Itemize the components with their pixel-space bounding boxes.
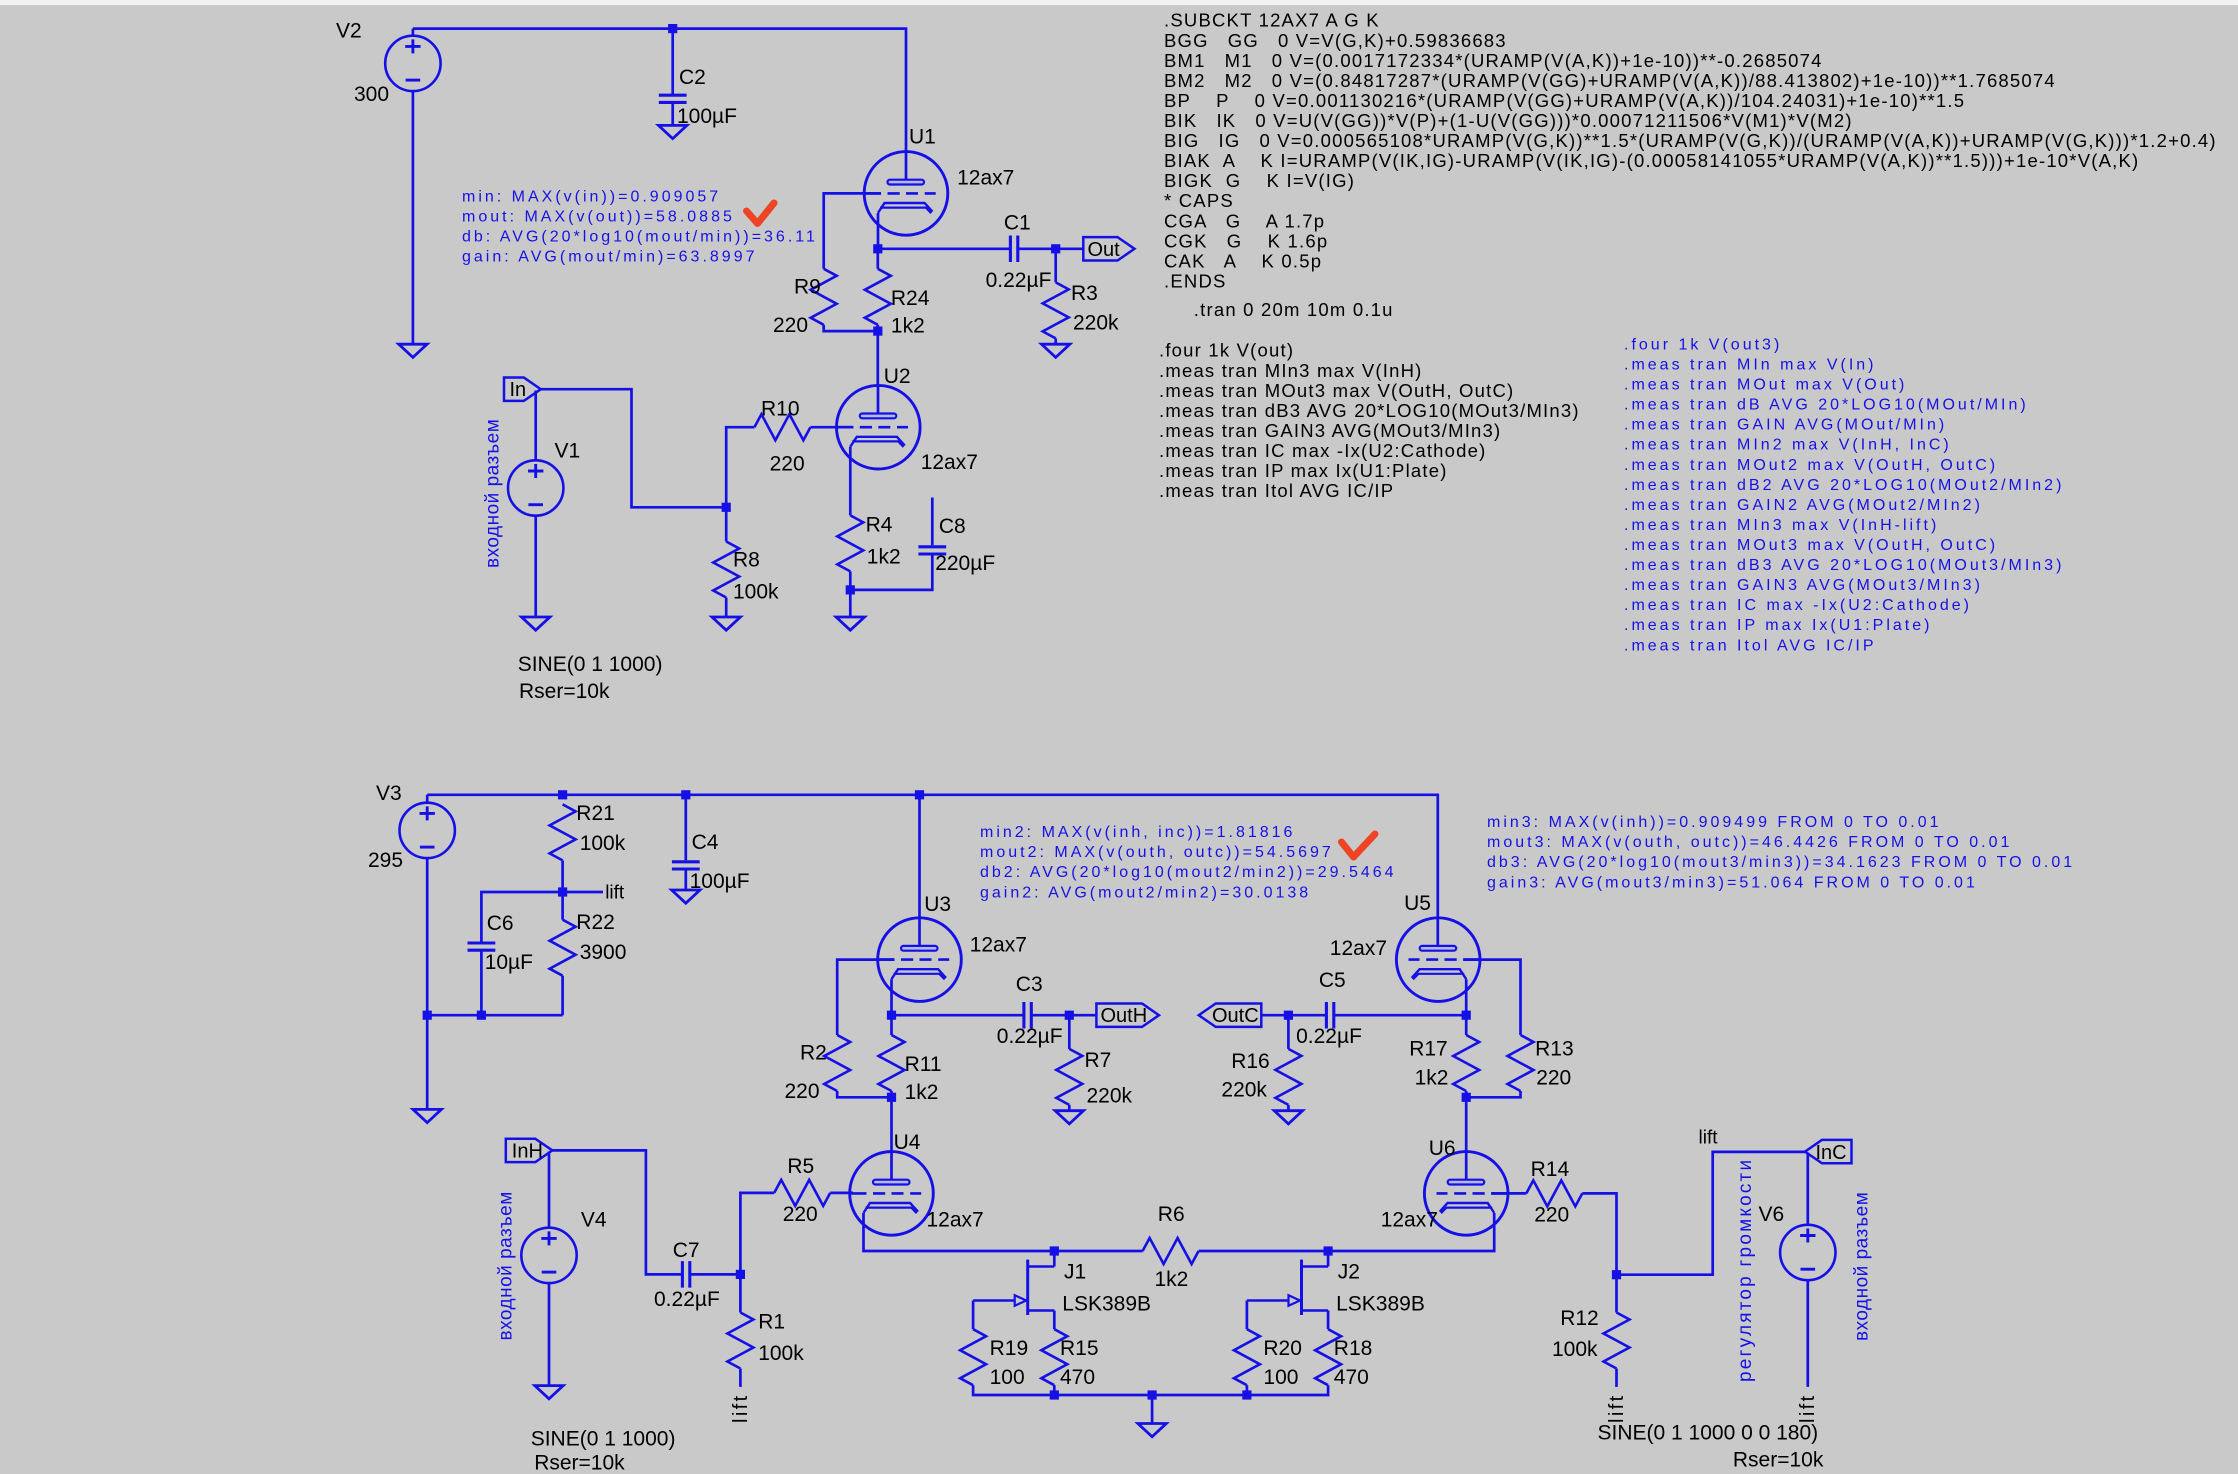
wire V6 minus stub [1806, 1280, 1809, 1387]
resistor R16 [1275, 1049, 1301, 1105]
wire lift stub [563, 891, 603, 894]
resistor R5 [774, 1180, 830, 1206]
wire R5 to U4 grid [830, 1192, 853, 1195]
svg-text:.meas tran MOut3 max V(OutH, O: .meas tran MOut3 max V(OutH, OutC) [1159, 380, 1514, 401]
svg-text:.meas tran IP max Ix(U1:Plate): .meas tran IP max Ix(U1:Plate) [1624, 617, 1932, 634]
wire V3 top lead [426, 795, 429, 803]
wire InH to C7 [552, 1150, 682, 1274]
wire R17 bottom lead [1465, 1091, 1468, 1097]
svg-text:C2: C2 [679, 66, 706, 89]
wire node up to R5 [740, 1193, 774, 1275]
resistor R20 [1234, 1329, 1260, 1385]
wire node to C1 left [878, 247, 1011, 250]
svg-text:470: 470 [1334, 1366, 1369, 1389]
svg-text:220: 220 [785, 1080, 820, 1103]
wire U4 plate lead [890, 1152, 893, 1180]
svg-text:R4: R4 [866, 514, 893, 537]
wire R10 right to U2 grid [810, 426, 853, 429]
wire U5 cathode to node [1465, 979, 1468, 1015]
svg-text:R2: R2 [800, 1042, 827, 1065]
wire U1 cathode to node [877, 213, 880, 249]
svg-text:db3: AVG(20*log10(mout3/min3)): db3: AVG(20*log10(mout3/min3))=34.1623 F… [1487, 854, 2075, 871]
wire InH down to V4 [548, 1152, 551, 1228]
wire R17 top lead [1465, 1015, 1468, 1035]
svg-text:R22: R22 [576, 911, 615, 934]
svg-text:U5: U5 [1404, 892, 1431, 915]
wire node down to U2 plate [876, 331, 879, 385]
svg-text:C5: C5 [1319, 969, 1346, 992]
wire R15 bottom lead [1053, 1385, 1056, 1395]
svg-text:CGK G K 1.6p: CGK G K 1.6p [1164, 230, 1328, 251]
resistor R24 [865, 269, 891, 325]
wire R3 to ground [1054, 338, 1057, 344]
wire R19 bottom to bus [973, 1385, 1054, 1395]
ground under C2 [659, 125, 687, 138]
wire R8 to ground [725, 598, 728, 618]
wire R2 bottom to node [837, 1091, 891, 1097]
resistor R6 [1143, 1238, 1199, 1264]
svg-text:220: 220 [783, 1203, 818, 1226]
wire C6 bottom lead [480, 950, 483, 1015]
svg-text:.meas tran MIn max V(In): .meas tran MIn max V(In) [1624, 356, 1877, 373]
svg-text:R18: R18 [1334, 1337, 1373, 1360]
svg-text:.SUBCKT 12AX7 A G K: .SUBCKT 12AX7 A G K [1164, 10, 1380, 31]
wire V2 plus lead [412, 29, 415, 36]
svg-text:220: 220 [773, 314, 808, 337]
svg-text:.meas tran MIn3 max V(InH-lift: .meas tran MIn3 max V(InH-lift) [1624, 517, 1939, 534]
svg-text:J1: J1 [1064, 1260, 1086, 1283]
svg-text:входной разъем: входной разъем [496, 1191, 517, 1340]
svg-text:регулятор громкости: регулятор громкости [1735, 1158, 1756, 1382]
svg-text:R14: R14 [1531, 1158, 1570, 1181]
svg-text:V3: V3 [376, 782, 402, 805]
wire node to R12 [1615, 1275, 1618, 1313]
wire J2 source to R18 [1327, 1311, 1330, 1330]
svg-text:100k: 100k [758, 1342, 804, 1365]
svg-text:.meas tran dB3 AVG 20*LOG10(MO: .meas tran dB3 AVG 20*LOG10(MOut3/MIn3) [1624, 557, 2064, 574]
svg-text:U4: U4 [894, 1131, 921, 1154]
net flag InH [506, 1139, 553, 1162]
wire node to ground [849, 590, 852, 617]
svg-text:.meas tran Itol AVG IC/IP: .meas tran Itol AVG IC/IP [1624, 637, 1877, 654]
wire J1 source to R15 [1053, 1311, 1056, 1330]
svg-text:1k2: 1k2 [1155, 1268, 1189, 1291]
svg-text:.meas tran dB3 AVG 20*LOG10(MO: .meas tran dB3 AVG 20*LOG10(MOut3/MIn3) [1159, 400, 1580, 421]
wire J1 gate to R19 [972, 1301, 975, 1330]
svg-text:.meas tran GAIN3 AVG(MOut3/MIn: .meas tran GAIN3 AVG(MOut3/MIn3) [1624, 577, 1983, 594]
svg-text:Rser=10k: Rser=10k [519, 680, 610, 703]
wire R18 bottom to bus [1247, 1385, 1328, 1395]
svg-text:10µF: 10µF [485, 951, 533, 974]
wire J2 drain lead [1327, 1251, 1330, 1267]
svg-text:.meas tran IC max -Ix(U2:Catho: .meas tran IC max -Ix(U2:Cathode) [1159, 440, 1486, 461]
svg-text:db2: AVG(20*log10(mout2/min2)): db2: AVG(20*log10(mout2/min2))=29.5464 [980, 864, 1397, 881]
wire C4 bottom lead [684, 869, 687, 890]
junction R15 at lower bus [1050, 1390, 1059, 1399]
svg-text:R20: R20 [1263, 1337, 1302, 1360]
junction node B+ at C2 [668, 24, 677, 33]
wire C2 bottom lead [671, 102, 674, 125]
svg-text:1k2: 1k2 [891, 315, 925, 338]
svg-text:* CAPS: * CAPS [1164, 190, 1234, 211]
ground under R4 [836, 617, 864, 630]
wire C4 top lead [684, 795, 687, 861]
triode U4 12ax7 [850, 1152, 934, 1236]
svg-text:12ax7: 12ax7 [957, 167, 1014, 190]
svg-text:BIGK G K I=V(IG): BIGK G K I=V(IG) [1164, 170, 1355, 191]
junction Out node [1051, 244, 1060, 253]
wire U6 grid to R14 [1491, 1192, 1526, 1195]
svg-text:.meas tran MIn2 max V(InH, InC: .meas tran MIn2 max V(InH, InC) [1624, 437, 1952, 454]
junction C7/R1/R5 node [736, 1270, 745, 1279]
triode U2 12ax7 [837, 385, 921, 469]
svg-text:R13: R13 [1535, 1037, 1574, 1060]
svg-text:gain: AVG(mout/min)=63.8997: gain: AVG(mout/min)=63.8997 [462, 249, 758, 266]
wire R22 bottom lead [561, 976, 564, 1016]
wire C8 top stub [931, 498, 934, 546]
svg-text:R19: R19 [990, 1337, 1029, 1360]
svg-text:InC: InC [1816, 1142, 1847, 1164]
wire J2 gate to R20 [1246, 1301, 1249, 1330]
svg-text:0.22µF: 0.22µF [1296, 1025, 1362, 1048]
svg-text:lift: lift [1606, 1393, 1628, 1423]
svg-text:V4: V4 [581, 1209, 607, 1232]
svg-text:J2: J2 [1338, 1260, 1360, 1283]
wire R11 top lead [890, 1015, 893, 1035]
svg-text:R12: R12 [1560, 1307, 1599, 1330]
svg-text:In: In [510, 379, 527, 401]
wire U5 grid to R13 [1463, 960, 1520, 1035]
wire U2 plate lead inside [877, 386, 880, 414]
svg-text:.meas tran dB2 AVG 20*LOG10(MO: .meas tran dB2 AVG 20*LOG10(MOut2/MIn2) [1624, 477, 2064, 494]
svg-text:mout: MAX(v(out))=58.0885: mout: MAX(v(out))=58.0885 [462, 208, 735, 225]
ground under R7 [1055, 1111, 1083, 1124]
wire R16 to ground [1287, 1105, 1290, 1111]
wire V2 minus to ground [412, 91, 415, 344]
svg-text:R1: R1 [758, 1311, 785, 1334]
resistor R19 [960, 1329, 986, 1385]
wire R11 bottom lead [890, 1091, 893, 1097]
wire lower bus [1054, 1394, 1247, 1397]
resistor R17 [1453, 1035, 1479, 1091]
junction OutH node [1065, 1011, 1074, 1020]
ground under R3 [1042, 344, 1070, 357]
svg-text:mout2: MAX(v(outh, outc))=54.5: mout2: MAX(v(outh, outc))=54.5697 [980, 844, 1334, 861]
wire C7 to node [690, 1273, 740, 1276]
junction R4/C8 node [846, 585, 855, 594]
ground under R8 [712, 617, 740, 630]
svg-text:OutC: OutC [1212, 1005, 1259, 1027]
svg-text:InH: InH [512, 1141, 543, 1163]
wire R6 to J2 node [1199, 1250, 1329, 1253]
svg-text:U1: U1 [909, 125, 936, 148]
wire InC down to V6 [1806, 1153, 1809, 1225]
svg-text:входной разъем: входной разъем [483, 419, 504, 568]
wire node to R10 left [726, 427, 754, 507]
svg-text:.meas tran GAIN2 AVG(MOut2/MIn: .meas tran GAIN2 AVG(MOut2/MIn2) [1624, 497, 1983, 514]
wire C3 to OutH [1032, 1014, 1097, 1017]
wire R21 bottom to lift node [561, 860, 564, 892]
svg-text:SINE(0 1 1000 0 0 180): SINE(0 1 1000 0 0 180) [1598, 1422, 1819, 1445]
wire node to InC flag [1617, 1152, 1806, 1275]
svg-text:300: 300 [354, 83, 389, 106]
junction R14/R12 node [1612, 1270, 1621, 1279]
svg-text:V2: V2 [336, 20, 362, 43]
svg-text:U3: U3 [924, 893, 951, 916]
wire R14 to node [1582, 1193, 1616, 1274]
svg-text:R24: R24 [891, 287, 930, 310]
capacitor C3 [1024, 1002, 1031, 1028]
wire R9 bottom to node [824, 325, 878, 331]
svg-text:db: AVG(20*log10(mout/min))=36: db: AVG(20*log10(mout/min))=36.11 [462, 229, 818, 246]
svg-text:.meas tran dB AVG 20*LOG10(MOu: .meas tran dB AVG 20*LOG10(MOut/MIn) [1624, 397, 2029, 414]
svg-text:0.22µF: 0.22µF [986, 269, 1052, 292]
junction R9/R24 bottom node [873, 327, 882, 336]
wire U6 plate lead [1465, 1152, 1468, 1180]
wire R13 bottom to node [1466, 1091, 1520, 1097]
resistor R15 [1041, 1329, 1067, 1385]
junction lift node [558, 887, 567, 896]
ground under R16 [1274, 1111, 1302, 1124]
svg-text:100: 100 [1263, 1366, 1298, 1389]
svg-text:gain2: AVG(mout2/min2)=30.0138: gain2: AVG(mout2/min2)=30.0138 [980, 884, 1311, 901]
wire R4 bottom lead [849, 571, 852, 590]
capacitor C8 [918, 547, 946, 554]
voltage source V3 [400, 803, 455, 858]
wire Out node to R3 [1054, 249, 1057, 283]
wire R24 bottom lead [876, 325, 879, 331]
svg-text:.meas tran MOut3 max V(OutH, O: .meas tran MOut3 max V(OutH, OutC) [1624, 537, 1998, 554]
JFET J1 LSK389B [973, 1260, 1054, 1315]
svg-text:R16: R16 [1231, 1050, 1270, 1073]
capacitor C2 [659, 95, 687, 102]
wire V1 minus to ground [534, 516, 537, 617]
capacitor C7 [682, 1261, 689, 1288]
svg-text:220k: 220k [1073, 312, 1119, 335]
wire node down to U6 plate [1465, 1097, 1468, 1151]
svg-text:BGG GG 0 V=V(G,K)+0.598366: BGG GG 0 V=V(G,K)+0.59836683 [1164, 30, 1507, 51]
resistor R1 [727, 1313, 753, 1369]
svg-text:12ax7: 12ax7 [970, 934, 1027, 957]
svg-text:min2: MAX(v(inh, inc))=1.81816: min2: MAX(v(inh, inc))=1.81816 [980, 824, 1295, 841]
junction U3 cathode node [887, 1011, 896, 1020]
svg-text:.four 1k V(out3): .four 1k V(out3) [1624, 336, 1782, 353]
wire R24 top lead [876, 249, 879, 269]
net flag OutH [1096, 1004, 1159, 1027]
wire In flag down to V1 plus [534, 391, 537, 461]
wire OutH node to R7 [1068, 1015, 1071, 1049]
resistor R18 [1315, 1329, 1341, 1385]
svg-text:min: MAX(v(in))=0.909057: min: MAX(v(in))=0.909057 [462, 188, 721, 205]
wire bottom rail [427, 795, 1438, 946]
wire node to R1 [739, 1274, 742, 1312]
svg-text:lift: lift [1797, 1393, 1819, 1423]
svg-text:12ax7: 12ax7 [1330, 937, 1387, 960]
svg-text:R9: R9 [794, 276, 821, 299]
triode U3 12ax7 [878, 918, 962, 1002]
svg-text:U6: U6 [1429, 1137, 1456, 1160]
svg-text:12ax7: 12ax7 [921, 451, 978, 474]
svg-text:min3: MAX(v(inh))=0.909499 FRO: min3: MAX(v(inh))=0.909499 FROM 0 TO 0.0… [1487, 814, 1942, 831]
wire node down to U4 plate [890, 1097, 893, 1151]
svg-text:220k: 220k [1087, 1085, 1133, 1108]
svg-text:C8: C8 [939, 515, 966, 538]
svg-text:BIK IK 0 V=U(V(GG))*V(P)+(: BIK IK 0 V=U(V(GG))*V(P)+(1-U(V(GG)))*0.… [1164, 110, 1853, 131]
svg-text:C6: C6 [487, 912, 514, 935]
svg-text:.meas tran MIn3 max V(InH): .meas tran MIn3 max V(InH) [1159, 360, 1423, 381]
resistor R22 [550, 920, 576, 976]
ground under V2 [399, 344, 427, 357]
svg-text:R6: R6 [1158, 1203, 1185, 1226]
svg-text:SINE(0 1 1000): SINE(0 1 1000) [518, 653, 663, 676]
junction U1 cathode node [873, 244, 882, 253]
wire R22 top lead [561, 892, 564, 920]
wire bus to R6 [1054, 1250, 1142, 1253]
svg-text:SINE(0 1 1000): SINE(0 1 1000) [531, 1427, 676, 1450]
svg-text:Rser=10k: Rser=10k [1733, 1449, 1824, 1472]
wire U3 cathode to node [890, 979, 893, 1015]
svg-text:12ax7: 12ax7 [1381, 1209, 1438, 1232]
svg-text:LSK389B: LSK389B [1062, 1293, 1151, 1316]
red check mark 2 [1342, 834, 1376, 857]
svg-text:lift: lift [730, 1393, 752, 1423]
svg-text:.ENDS: .ENDS [1164, 270, 1227, 291]
svg-text:220: 220 [1534, 1204, 1569, 1227]
wire In flag to R8 node [541, 389, 726, 507]
junction R17/R13 bottom node [1462, 1093, 1471, 1102]
wire U3 plate lead [918, 795, 921, 946]
triode U5 12ax7 [1396, 918, 1480, 1002]
svg-text:CAK A K 0.5p: CAK A K 0.5p [1164, 250, 1322, 271]
red check mark 1 [747, 203, 775, 224]
svg-text:C3: C3 [1016, 973, 1043, 996]
junction rail at U3 plate [915, 790, 924, 799]
svg-text:R10: R10 [761, 398, 800, 421]
junction ground tap at lower bus [1148, 1390, 1157, 1399]
svg-text:V1: V1 [555, 440, 581, 463]
junction R20 at lower bus [1242, 1390, 1251, 1399]
svg-text:.four 1k V(out): .four 1k V(out) [1159, 340, 1294, 361]
svg-text:gain3: AVG(mout3/min3)=51.064: gain3: AVG(mout3/min3)=51.064 FROM 0 TO … [1487, 874, 1978, 891]
ground under C4 [672, 890, 700, 903]
wire node to C3 [892, 1014, 1024, 1017]
svg-text:220k: 220k [1221, 1079, 1267, 1102]
ground under V1 [522, 617, 550, 630]
resistor R4 [837, 515, 863, 571]
svg-text:C1: C1 [1004, 212, 1031, 235]
svg-text:R5: R5 [787, 1155, 814, 1178]
capacitor C6 [468, 943, 496, 950]
resistor R13 [1508, 1035, 1534, 1091]
svg-text:R3: R3 [1071, 282, 1098, 305]
svg-text:220: 220 [1536, 1067, 1571, 1090]
junction U5 cathode node [1462, 1011, 1471, 1020]
svg-text:CGA G A 1.7p: CGA G A 1.7p [1164, 210, 1325, 231]
wire J2 node to U6 cathode [1328, 1213, 1494, 1251]
ground under V4 [535, 1386, 563, 1399]
svg-text:.meas tran MOut2 max V(OutH, O: .meas tran MOut2 max V(OutH, OutC) [1624, 457, 1998, 474]
junction V3 line at lift bus [423, 1011, 432, 1020]
svg-text:R15: R15 [1060, 1337, 1099, 1360]
svg-text:.meas tran GAIN3 AVG(MOut3/MIn: .meas tran GAIN3 AVG(MOut3/MIn3) [1159, 420, 1501, 441]
svg-text:BM1 M1 0 V=(0.0017172334*(: BM1 M1 0 V=(0.0017172334*(URAMP(V(A,K))+… [1164, 50, 1823, 71]
svg-text:U2: U2 [884, 365, 911, 388]
svg-text:lift: lift [605, 883, 625, 904]
resistor R7 [1056, 1049, 1082, 1105]
resistor R12 [1604, 1313, 1630, 1369]
wire J1 drain lead [1053, 1251, 1056, 1267]
svg-text:LSK389B: LSK389B [1336, 1293, 1425, 1316]
wire C8 bottom to node [850, 554, 932, 590]
svg-text:.meas tran Itol AVG IC/IP: .meas tran Itol AVG IC/IP [1159, 480, 1394, 501]
wire V3 minus down to ground [426, 858, 429, 1109]
svg-text:1k2: 1k2 [867, 546, 901, 569]
wire to common ground [1151, 1395, 1154, 1424]
wire C1 right to Out [1018, 247, 1083, 250]
junction J1 drain at bus [1050, 1246, 1059, 1255]
voltage source V6 [1780, 1225, 1835, 1280]
resistor R10 [754, 414, 810, 440]
svg-text:R21: R21 [576, 802, 615, 825]
svg-text:3900: 3900 [580, 941, 627, 964]
svg-text:C4: C4 [692, 831, 719, 854]
junction rail at C4 [681, 790, 690, 799]
capacitor C1 [1010, 236, 1017, 262]
net flag OutC [1199, 1004, 1262, 1027]
wire node to R8 [725, 507, 728, 541]
resistor R9 [811, 269, 837, 325]
svg-text:V6: V6 [1759, 1203, 1785, 1226]
ground common JFET [1138, 1424, 1166, 1437]
triode U6 12ax7 [1424, 1152, 1508, 1236]
svg-text:470: 470 [1060, 1366, 1095, 1389]
svg-text:входной разъем: входной разъем [1852, 1192, 1873, 1341]
wire R7 to ground [1068, 1105, 1071, 1111]
svg-text:295: 295 [368, 849, 403, 872]
net flag InC [1805, 1140, 1852, 1163]
wire OutC node to R16 [1287, 1015, 1290, 1049]
svg-text:100k: 100k [580, 832, 626, 855]
svg-text:100k: 100k [1552, 1338, 1598, 1361]
resistor R3 [1043, 282, 1069, 338]
wire U4 cathode to J1 node [864, 1213, 1055, 1251]
svg-text:BP P 0 V=0.001130216*(UR: BP P 0 V=0.001130216*(URAMP(V(GG)+URAMP(… [1164, 90, 1965, 111]
svg-text:.tran 0 20m 10m 0.1u: .tran 0 20m 10m 0.1u [1194, 299, 1394, 320]
capacitor C4 [672, 862, 700, 869]
triode U1 12ax7 [864, 152, 948, 236]
svg-text:.meas tran MOut max V(Out): .meas tran MOut max V(Out) [1624, 377, 1907, 394]
wire U1 grid lead down to R9 [824, 193, 881, 268]
wire U3 grid to R2 [837, 960, 894, 1035]
resistor R8 [713, 542, 739, 598]
svg-text:1k2: 1k2 [905, 1081, 939, 1104]
wire V4 minus to ground [548, 1283, 551, 1386]
svg-text:100µF: 100µF [690, 870, 750, 893]
ground under V3 [413, 1109, 441, 1122]
wire R1 bottom stub [739, 1369, 742, 1387]
junction rail at R21 [558, 790, 567, 799]
svg-text:R8: R8 [733, 549, 760, 572]
svg-text:C7: C7 [673, 1239, 700, 1262]
svg-text:OutH: OutH [1101, 1005, 1148, 1027]
voltage source V1 [508, 460, 563, 515]
wire lift node to C6 [481, 892, 562, 942]
wire C2 top lead [671, 29, 674, 96]
junction C6 at lift bus [477, 1011, 486, 1020]
resistor R11 [879, 1035, 905, 1091]
voltage source V4 [521, 1228, 576, 1283]
svg-text:R11: R11 [905, 1053, 942, 1076]
